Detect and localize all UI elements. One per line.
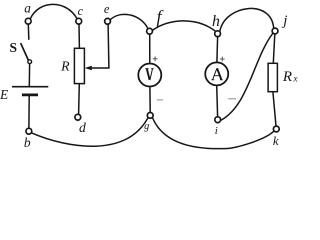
svg-text:d: d	[79, 120, 86, 135]
svg-text:c: c	[78, 4, 84, 18]
svg-text:g: g	[144, 121, 149, 132]
svg-text:h: h	[212, 13, 220, 30]
svg-text:R: R	[60, 58, 70, 73]
svg-text:i: i	[215, 125, 218, 137]
svg-text:R: R	[282, 69, 292, 85]
svg-text:S: S	[9, 40, 17, 55]
svg-text:e: e	[104, 2, 110, 16]
svg-text:a: a	[24, 1, 31, 16]
svg-text:E: E	[0, 87, 9, 102]
svg-text:b: b	[24, 135, 31, 150]
svg-text:k: k	[273, 134, 279, 148]
svg-text:x: x	[292, 75, 298, 85]
